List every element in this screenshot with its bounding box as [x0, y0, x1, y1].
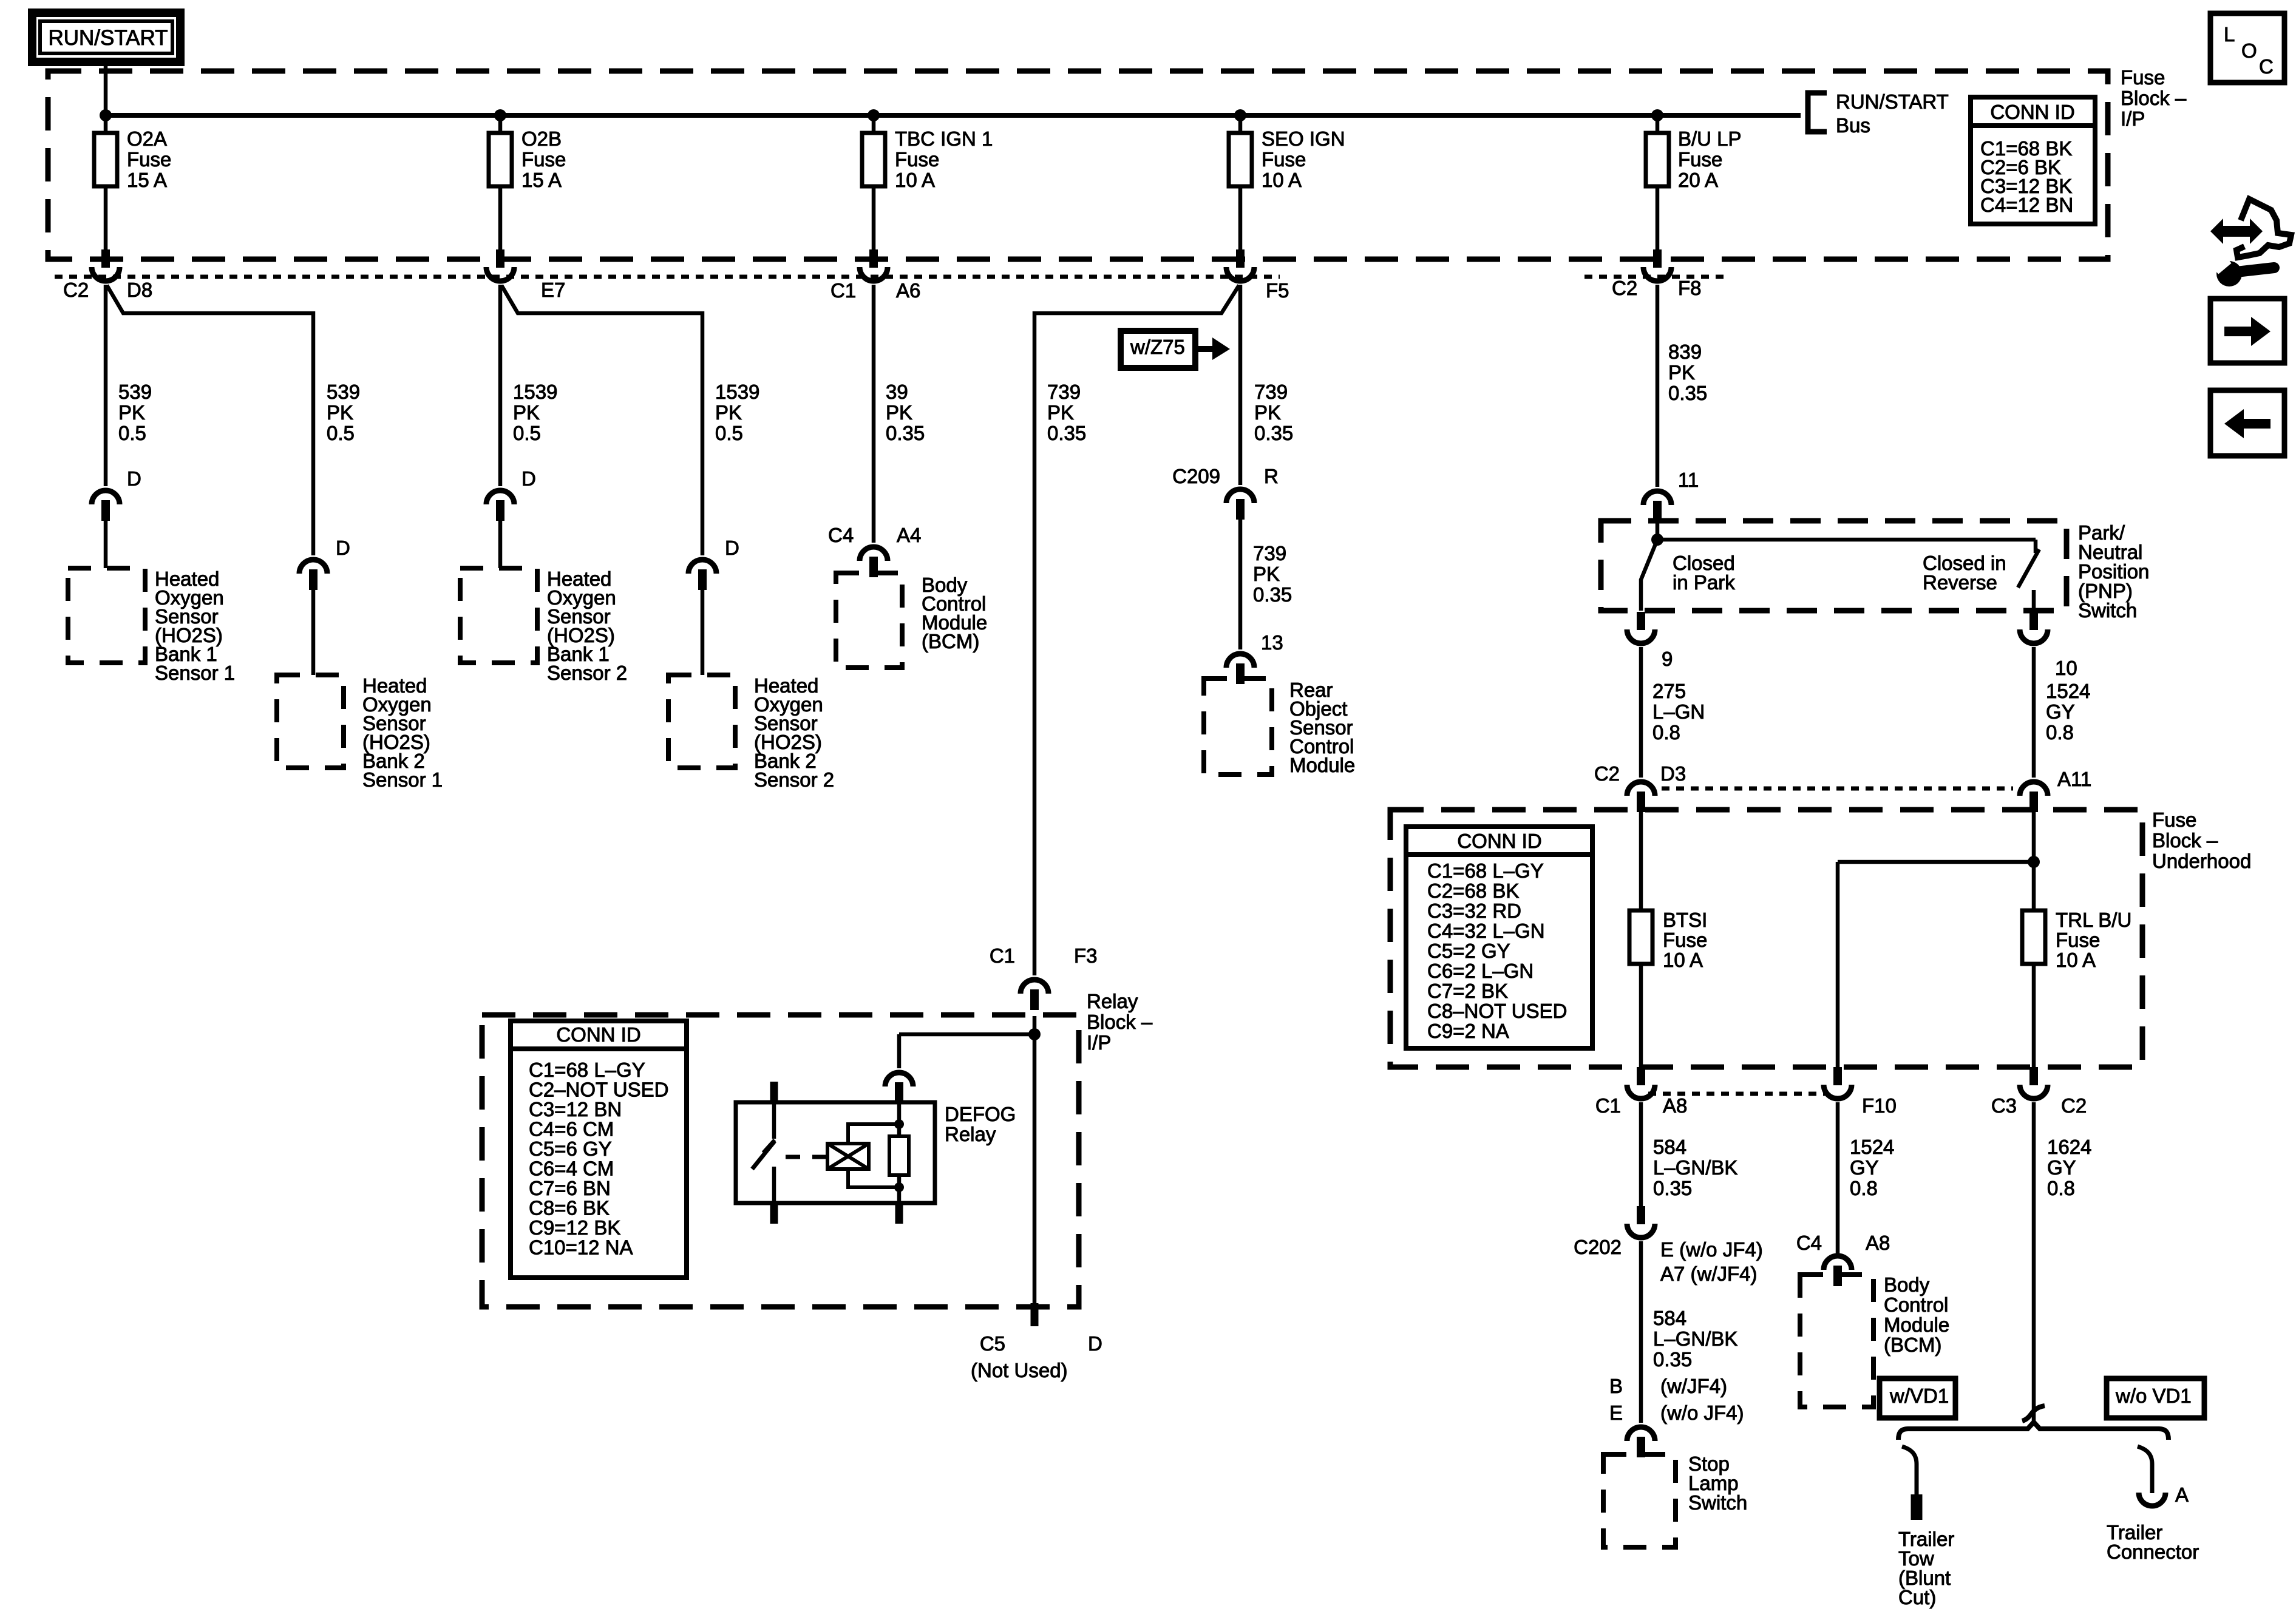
- svg-text:F10: F10: [1862, 1094, 1897, 1117]
- svg-text:Control: Control: [1884, 1293, 1948, 1316]
- LOC page box: [2210, 13, 2284, 83]
- relay resistor: [897, 1124, 902, 1136]
- svg-text:C5=2 GY: C5=2 GY: [1427, 940, 1510, 962]
- branch wire D8 to bank2: [107, 285, 313, 555]
- svg-text:C3: C3: [1991, 1094, 2017, 1117]
- svg-text:(Not Used): (Not Used): [971, 1359, 1068, 1381]
- svg-text:0.8: 0.8: [2047, 1177, 2075, 1199]
- junction node coil bottom: [894, 1182, 904, 1192]
- svg-text:Underhood: Underhood: [2152, 850, 2251, 872]
- connector C4/A4 BCM: [860, 547, 888, 561]
- CONN ID table underhood: [1406, 827, 1592, 1048]
- wire bus to O2B fuse: [498, 115, 503, 133]
- svg-text:1524: 1524: [1850, 1136, 1894, 1158]
- wire 584 lower: [1639, 1241, 1643, 1423]
- connector face dotted line I/P left: [55, 275, 1280, 279]
- connector F5: [1236, 249, 1245, 268]
- connector C3/C2: [2029, 1067, 2038, 1085]
- svg-text:C3=12 BN: C3=12 BN: [529, 1098, 622, 1120]
- relay block C5 output pin: [1031, 1303, 1039, 1326]
- svg-text:C5=6 GY: C5=6 GY: [529, 1137, 612, 1160]
- svg-text:C8–NOT USED: C8–NOT USED: [1427, 1000, 1567, 1022]
- svg-text:A8: A8: [1866, 1232, 1890, 1254]
- wire 539 PK left: [104, 285, 108, 486]
- wire into PNP: [1656, 520, 1660, 540]
- svg-text:I/P: I/P: [1087, 1031, 1111, 1054]
- wire bus to B/U LP fuse: [1656, 115, 1660, 133]
- connector A11: [2020, 782, 2048, 796]
- component BCM2 box: [1800, 1275, 1873, 1407]
- svg-text:0.35: 0.35: [1253, 583, 1292, 606]
- svg-text:Sensor 2: Sensor 2: [754, 768, 834, 791]
- svg-text:10 A: 10 A: [2056, 949, 2096, 971]
- wire 739 PK main: [1238, 285, 1243, 485]
- svg-text:C2: C2: [2061, 1094, 2087, 1117]
- relay coil box: [827, 1144, 869, 1169]
- svg-text:C4: C4: [828, 524, 854, 546]
- svg-text:0.35: 0.35: [1653, 1348, 1692, 1371]
- svg-text:9: 9: [1662, 648, 1673, 670]
- svg-text:Body: Body: [1884, 1273, 1930, 1296]
- svg-text:Fuse: Fuse: [127, 148, 171, 171]
- CONN ID table relay block: [511, 1021, 687, 1278]
- svg-text:Reverse: Reverse: [1923, 571, 1997, 594]
- svg-text:PK: PK: [1668, 361, 1695, 384]
- svg-text:C: C: [2259, 55, 2274, 78]
- svg-text:C2=68 BK: C2=68 BK: [1427, 880, 1519, 902]
- CONN ID table fuse block I/P: [1971, 97, 2095, 224]
- svg-text:C5: C5: [980, 1332, 1005, 1355]
- junction node relay branch: [1028, 1028, 1041, 1040]
- svg-text:C2: C2: [1594, 762, 1620, 785]
- connector face dotted line underhood bottom: [1648, 1092, 1827, 1096]
- wire to HO2S bank1 sensor2: [498, 519, 503, 568]
- wire O2A fuse to connector: [104, 186, 108, 250]
- svg-text:PK: PK: [715, 401, 742, 424]
- fuse BTSI 10A: [1629, 910, 1652, 964]
- relay actuator dashed link: [786, 1155, 826, 1159]
- svg-text:1539: 1539: [513, 381, 557, 403]
- connector C1/F3: [1021, 980, 1048, 994]
- component HO2S Bank1 Sensor1 box: [68, 568, 145, 663]
- svg-text:D: D: [336, 537, 350, 559]
- trailer connector lead: [2138, 1446, 2152, 1493]
- connector 10 PNP out: [2029, 612, 2038, 630]
- connector D bank2 sensor1: [299, 560, 327, 574]
- branch wire F5 to relay block: [1034, 285, 1239, 975]
- svg-text:Fuse: Fuse: [2056, 929, 2100, 951]
- svg-text:839: 839: [1668, 341, 1702, 363]
- svg-text:DEFOG: DEFOG: [945, 1103, 1016, 1125]
- svg-text:SEO IGN: SEO IGN: [1262, 127, 1345, 150]
- svg-text:RUN/START: RUN/START: [1836, 90, 1949, 113]
- component Stop Lamp Switch box: [1603, 1454, 1676, 1547]
- fuse block underhood dashed border: [1390, 810, 2142, 1067]
- connector C1/A8: [1637, 1067, 1645, 1085]
- component DEFOG relay box: [736, 1102, 935, 1203]
- branch wire to defog relay: [899, 1032, 1034, 1037]
- svg-text:739: 739: [1254, 381, 1288, 403]
- relay coil feed wire: [897, 1101, 902, 1124]
- svg-text:A7 (w/JF4): A7 (w/JF4): [1660, 1263, 1758, 1285]
- connector B/E stop lamp: [1627, 1427, 1655, 1441]
- svg-text:C1: C1: [990, 944, 1015, 967]
- svg-text:0.5: 0.5: [327, 422, 355, 444]
- switch contact closed in reverse: [2034, 540, 2038, 553]
- relay switch lower terminal: [772, 1167, 776, 1203]
- icon car diagnosis: [2222, 226, 2251, 237]
- fuse SEO IGN 10A: [1229, 133, 1252, 186]
- svg-text:539: 539: [118, 381, 152, 403]
- power source box RUN/START: [32, 13, 180, 62]
- svg-text:L–GN/BK: L–GN/BK: [1653, 1327, 1737, 1350]
- wire PNP common to reverse contact: [1657, 538, 2036, 542]
- svg-text:C1=68 L–GY: C1=68 L–GY: [1427, 859, 1544, 882]
- svg-text:0.8: 0.8: [1850, 1177, 1878, 1199]
- svg-text:PK: PK: [327, 401, 353, 424]
- component PNP switch dashed box: [1601, 521, 2067, 611]
- svg-text:CONN ID: CONN ID: [556, 1023, 640, 1046]
- option box w/VD1: [1880, 1378, 1955, 1418]
- svg-text:Fuse: Fuse: [895, 148, 939, 171]
- svg-text:D: D: [1088, 1332, 1102, 1355]
- harness brace: [1898, 1422, 2169, 1440]
- svg-text:Bus: Bus: [1836, 114, 1870, 137]
- svg-text:R: R: [1264, 465, 1279, 487]
- svg-text:O2A: O2A: [127, 127, 167, 150]
- svg-text:C6=4 CM: C6=4 CM: [529, 1158, 614, 1180]
- wire A11 to TRL fuse: [2032, 810, 2036, 910]
- fuse block I/P dashed border: [48, 71, 2108, 259]
- wire F3 through relay block: [1033, 1016, 1037, 1303]
- svg-text:E7: E7: [541, 279, 565, 301]
- svg-text:L–GN/BK: L–GN/BK: [1653, 1156, 1737, 1179]
- connector F10: [1833, 1067, 1842, 1085]
- wire from RUN/START to bus: [104, 62, 108, 133]
- svg-text:Module: Module: [1884, 1314, 1949, 1336]
- svg-text:Fuse: Fuse: [1262, 148, 1306, 171]
- inline connector C202: [1637, 1206, 1645, 1224]
- svg-text:A4: A4: [897, 524, 921, 546]
- svg-text:15 A: 15 A: [127, 169, 167, 191]
- svg-text:Relay: Relay: [945, 1123, 996, 1145]
- svg-text:C6=2 L–GN: C6=2 L–GN: [1427, 960, 1533, 982]
- svg-text:0.35: 0.35: [1047, 422, 1086, 444]
- icon forward arrow box: [2210, 299, 2284, 363]
- connector D bank1 sensor1: [92, 490, 120, 504]
- svg-text:Connector: Connector: [2107, 1541, 2199, 1563]
- svg-text:C9=2 NA: C9=2 NA: [1427, 1020, 1509, 1042]
- svg-text:w/o VD1: w/o VD1: [2115, 1385, 2192, 1407]
- svg-text:Block –: Block –: [1087, 1011, 1153, 1033]
- svg-text:CONN ID: CONN ID: [1457, 830, 1541, 852]
- svg-text:E (w/o JF4): E (w/o JF4): [1660, 1238, 1763, 1261]
- junction node bus-O2B: [494, 109, 506, 121]
- junction node bus-TBC: [868, 109, 880, 121]
- connector 9 PNP out: [1637, 612, 1645, 630]
- relay switch top pin: [770, 1082, 778, 1102]
- svg-text:F3: F3: [1074, 944, 1098, 967]
- svg-text:10 A: 10 A: [1262, 169, 1302, 191]
- svg-text:in Park: in Park: [1673, 571, 1735, 594]
- wire to HO2S bank2 sensor2: [701, 588, 705, 675]
- relay switch bottom pin: [770, 1203, 778, 1224]
- svg-text:A8: A8: [1663, 1094, 1687, 1117]
- inline connector C209: [1226, 489, 1254, 503]
- svg-text:D3: D3: [1660, 762, 1686, 785]
- svg-text:Sensor 1: Sensor 1: [155, 662, 235, 684]
- svg-text:A6: A6: [896, 279, 920, 302]
- svg-text:Relay: Relay: [1087, 990, 1138, 1012]
- svg-text:C10=12 NA: C10=12 NA: [529, 1236, 633, 1259]
- branch wire to F10: [1838, 860, 2034, 864]
- svg-text:C1: C1: [1595, 1094, 1621, 1117]
- wire 1524 GY lower: [1836, 1102, 1840, 1254]
- svg-text:0.8: 0.8: [2046, 721, 2074, 744]
- connector C1/A6: [869, 249, 878, 268]
- wire TBC fuse to connector: [872, 186, 876, 250]
- svg-text:C7=6 BN: C7=6 BN: [529, 1177, 611, 1199]
- svg-text:C8=6 BK: C8=6 BK: [529, 1197, 610, 1219]
- svg-text:0.35: 0.35: [1668, 382, 1707, 404]
- svg-text:F8: F8: [1678, 277, 1702, 299]
- svg-text:13: 13: [1261, 631, 1283, 654]
- svg-text:C9=12 BK: C9=12 BK: [529, 1216, 620, 1239]
- svg-text:RUN/START: RUN/START: [48, 26, 168, 50]
- connector C4/A8 BCM2: [1824, 1256, 1852, 1270]
- svg-text:Switch: Switch: [1688, 1491, 1747, 1514]
- wire 1539 PK left: [498, 285, 503, 486]
- wire BTSI fuse to C1/A8: [1639, 964, 1643, 1067]
- connector C2/D3: [1627, 782, 1655, 796]
- option box w/Z75: [1121, 331, 1195, 368]
- wire to HO2S bank2 sensor1: [311, 588, 316, 675]
- svg-text:10 A: 10 A: [895, 169, 935, 191]
- junction node coil top: [894, 1119, 904, 1129]
- wire 39 PK: [872, 285, 876, 543]
- svg-text:PK: PK: [886, 401, 912, 424]
- connector C2/F8: [1653, 249, 1662, 268]
- svg-text:C3=32 RD: C3=32 RD: [1427, 900, 1521, 922]
- svg-text:(BCM): (BCM): [922, 630, 979, 653]
- wire 1524 GY: [2032, 647, 2036, 778]
- relay coil bottom pin: [895, 1203, 903, 1224]
- svg-text:Fuse: Fuse: [2121, 66, 2165, 89]
- svg-text:Switch: Switch: [2078, 599, 2137, 622]
- svg-text:GY: GY: [1850, 1156, 1879, 1179]
- component HO2S Bank2 Sensor2 box: [668, 675, 735, 768]
- wire D3 to BTSI fuse: [1639, 810, 1643, 910]
- connector defog coil: [885, 1073, 913, 1086]
- svg-text:(w/o JF4): (w/o JF4): [1660, 1402, 1744, 1424]
- svg-text:L: L: [2224, 23, 2235, 46]
- wire O2B fuse to connector: [498, 186, 503, 250]
- svg-text:A: A: [2175, 1483, 2189, 1506]
- harness break symbol: [2022, 1406, 2045, 1421]
- svg-text:CONN ID: CONN ID: [1990, 101, 2074, 123]
- svg-text:C2: C2: [1612, 277, 1637, 299]
- svg-text:C202: C202: [1574, 1236, 1622, 1258]
- svg-text:0.5: 0.5: [118, 422, 146, 444]
- svg-text:10 A: 10 A: [1663, 949, 1703, 971]
- trailer tow lead: [1902, 1446, 1917, 1494]
- svg-text:D: D: [521, 467, 536, 490]
- svg-text:1539: 1539: [715, 381, 759, 403]
- wire to HO2S bank1 sensor1: [104, 519, 108, 568]
- svg-text:1524: 1524: [2046, 680, 2090, 702]
- svg-text:584: 584: [1653, 1307, 1686, 1329]
- svg-text:C4=6 CM: C4=6 CM: [529, 1118, 614, 1141]
- fuse B/U LP 20A: [1646, 133, 1669, 186]
- wire 275 L-GN: [1639, 647, 1643, 778]
- relay coil loop wire: [848, 1124, 899, 1187]
- svg-text:0.35: 0.35: [1254, 422, 1293, 444]
- bus end bracket: [1808, 93, 1827, 132]
- svg-text:39: 39: [886, 381, 908, 403]
- svg-text:PK: PK: [513, 401, 540, 424]
- svg-text:Fuse: Fuse: [1663, 929, 1707, 951]
- svg-text:0.8: 0.8: [1652, 721, 1680, 744]
- svg-text:(w/JF4): (w/JF4): [1660, 1375, 1727, 1397]
- wire 839 PK: [1656, 285, 1660, 487]
- relay coil out wire: [897, 1187, 902, 1203]
- svg-text:I/P: I/P: [2121, 107, 2145, 130]
- connector 11 PNP: [1643, 491, 1671, 505]
- fuse O2A 15A: [94, 133, 117, 186]
- component HO2S Bank2 Sensor1 box: [277, 675, 344, 768]
- svg-text:E: E: [1609, 1402, 1623, 1424]
- svg-text:275: 275: [1652, 680, 1686, 702]
- svg-text:539: 539: [327, 381, 360, 403]
- branch wire E7 to bank2 sensor2: [501, 285, 702, 555]
- svg-text:Fuse: Fuse: [1678, 148, 1722, 171]
- fuse O2B 15A: [489, 133, 512, 186]
- svg-text:A11: A11: [2057, 768, 2091, 790]
- svg-text:B/U LP: B/U LP: [1678, 127, 1742, 150]
- switch blade closed in park: [1641, 540, 1657, 611]
- wire B/U LP fuse to connector: [1656, 186, 1660, 250]
- svg-text:C4: C4: [1796, 1232, 1822, 1254]
- svg-text:PK: PK: [118, 401, 145, 424]
- svg-text:C4=12 BN: C4=12 BN: [1980, 194, 2073, 216]
- svg-text:(BCM): (BCM): [1884, 1334, 1941, 1356]
- svg-text:Block –: Block –: [2152, 829, 2218, 852]
- relay block I/P dashed border: [482, 1015, 1079, 1307]
- svg-text:O: O: [2241, 39, 2257, 62]
- svg-text:C4=32 L–GN: C4=32 L–GN: [1427, 920, 1545, 942]
- svg-text:1624: 1624: [2047, 1136, 2091, 1158]
- junction node TRL branch: [2028, 856, 2040, 868]
- icon back arrow box: [2210, 390, 2284, 456]
- svg-text:Block –: Block –: [2121, 87, 2187, 109]
- relay switch blade: [752, 1141, 775, 1169]
- svg-text:0.35: 0.35: [1653, 1177, 1692, 1199]
- component HO2S Bank1 Sensor2 box: [460, 568, 537, 663]
- junction node bus-SEO: [1234, 109, 1246, 121]
- junction node PNP common: [1651, 534, 1663, 546]
- wire 1624 GY: [2032, 1102, 2036, 1423]
- svg-text:w/VD1: w/VD1: [1889, 1385, 1949, 1407]
- svg-text:TBC IGN 1: TBC IGN 1: [895, 127, 993, 150]
- svg-text:GY: GY: [2047, 1156, 2076, 1179]
- svg-text:O2B: O2B: [521, 127, 562, 150]
- svg-text:584: 584: [1653, 1136, 1686, 1158]
- component Rear Object Sensor Control Module box: [1204, 679, 1272, 775]
- svg-text:w/Z75: w/Z75: [1130, 336, 1185, 358]
- connector D bank2 sensor2: [688, 560, 716, 574]
- svg-text:Sensor 2: Sensor 2: [547, 662, 627, 684]
- svg-text:Cut): Cut): [1898, 1586, 1936, 1609]
- svg-text:Fuse: Fuse: [521, 148, 566, 171]
- svg-text:C7=2 BK: C7=2 BK: [1427, 980, 1508, 1002]
- wire bus to TBC fuse: [872, 115, 876, 133]
- svg-text:C1: C1: [830, 279, 856, 302]
- svg-text:B: B: [1609, 1375, 1623, 1397]
- svg-text:739: 739: [1047, 381, 1081, 403]
- svg-text:C2: C2: [63, 279, 89, 301]
- connector face dotted line underhood top: [1662, 787, 2013, 791]
- svg-text:10: 10: [2055, 657, 2077, 679]
- connector E7: [496, 249, 504, 268]
- svg-text:739: 739: [1253, 542, 1286, 564]
- svg-text:GY: GY: [2046, 700, 2075, 723]
- svg-text:PK: PK: [1253, 563, 1280, 585]
- svg-text:D8: D8: [127, 279, 152, 301]
- wire 584 upper: [1639, 1102, 1643, 1206]
- relay switch top terminal: [772, 1102, 776, 1139]
- connector face dotted line I/P right: [1584, 275, 1727, 279]
- component BCM box: [836, 573, 902, 668]
- connector 13 ROSCM: [1226, 654, 1254, 668]
- svg-text:20 A: 20 A: [1678, 169, 1718, 191]
- svg-text:0.5: 0.5: [715, 422, 743, 444]
- arrow w/Z75: [1195, 346, 1212, 352]
- option box w/o VD1: [2107, 1378, 2204, 1418]
- wire TRL fuse to C3/C2: [2032, 964, 2036, 1067]
- svg-text:D: D: [725, 537, 739, 559]
- svg-text:TRL B/U: TRL B/U: [2056, 909, 2131, 931]
- RUN/START bus wire: [106, 113, 1801, 118]
- svg-text:PK: PK: [1254, 401, 1281, 424]
- svg-text:PK: PK: [1047, 401, 1074, 424]
- svg-text:C209: C209: [1172, 465, 1220, 487]
- svg-text:L–GN: L–GN: [1652, 700, 1705, 723]
- svg-text:D: D: [127, 467, 141, 490]
- wire SEO fuse to connector: [1238, 186, 1243, 250]
- junction node bus-O2A: [100, 109, 112, 121]
- svg-text:0.5: 0.5: [513, 422, 541, 444]
- svg-text:0.35: 0.35: [886, 422, 925, 444]
- connector D bank1 sensor2: [486, 490, 514, 504]
- svg-text:Module: Module: [1289, 754, 1355, 776]
- svg-text:F5: F5: [1266, 279, 1289, 302]
- svg-text:BTSI: BTSI: [1663, 909, 1707, 931]
- svg-text:C2–NOT USED: C2–NOT USED: [529, 1079, 668, 1101]
- fuse TRL B/U 10A: [2022, 910, 2045, 964]
- connector C2/D8: [101, 249, 110, 268]
- svg-text:15 A: 15 A: [521, 169, 562, 191]
- svg-text:Fuse: Fuse: [2152, 808, 2196, 831]
- junction node bus-BULP: [1651, 109, 1663, 121]
- svg-text:Sensor 1: Sensor 1: [362, 768, 443, 791]
- svg-text:11: 11: [1678, 469, 1699, 491]
- fuse TBC IGN 1 10A: [862, 133, 885, 186]
- svg-text:C1=68 L–GY: C1=68 L–GY: [529, 1059, 645, 1081]
- wire bus to SEO fuse: [1238, 115, 1243, 133]
